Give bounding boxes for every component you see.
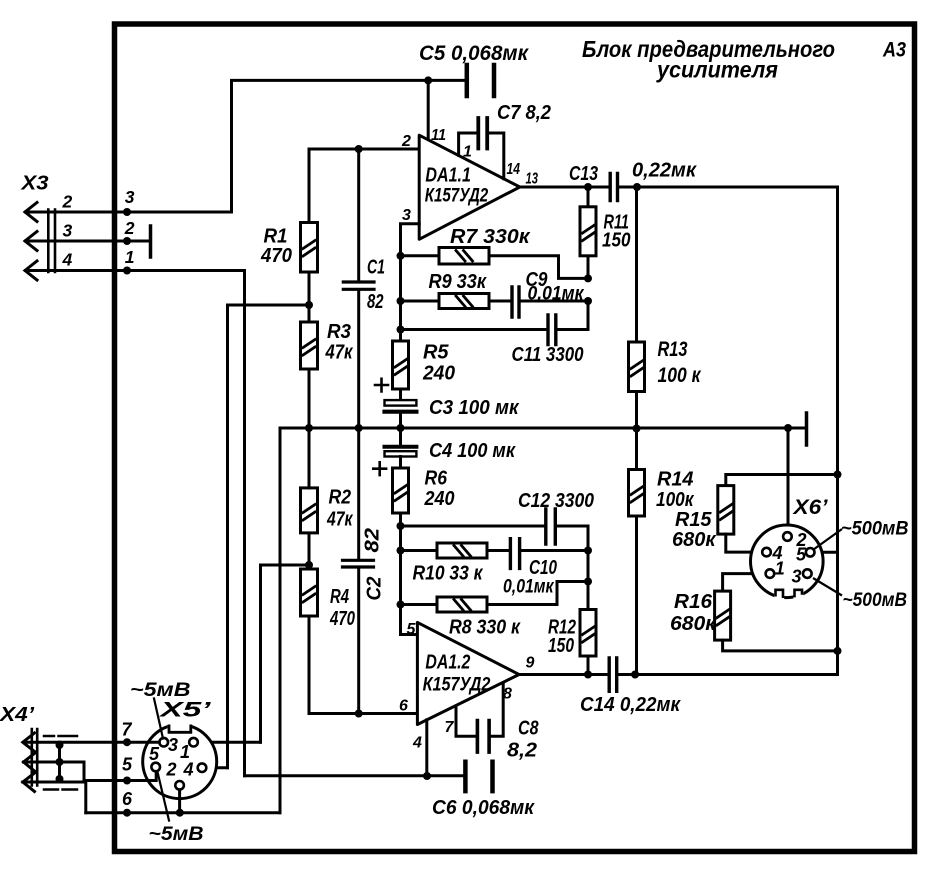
junction dot R2R4	[305, 561, 313, 569]
svg-text:R5: R5	[423, 342, 449, 364]
junction dot X5 bottom pin row	[176, 809, 184, 817]
wire bus corner down to row6	[279, 428, 282, 813]
wire R16 top to X6 pin1	[723, 574, 767, 592]
wire X4 row6 step	[23, 782, 86, 813]
svg-text:R14: R14	[657, 469, 694, 491]
svg-text:100к: 100к	[656, 489, 694, 511]
wire R3 bottom to bus	[308, 369, 311, 428]
resistor R9	[439, 294, 489, 309]
svg-text:470: 470	[260, 245, 292, 267]
wire X5 pin4 row	[205, 766, 228, 769]
junction dots R11 column	[584, 274, 592, 282]
capacitor C9	[512, 287, 519, 317]
svg-text:C14 0,22мк: C14 0,22мк	[580, 694, 681, 716]
wire X5 bottom pin to row6	[178, 790, 181, 813]
wire bus to C4	[399, 428, 402, 445]
wire row6	[86, 811, 280, 814]
svg-text:4: 4	[62, 250, 73, 270]
X5 pin bottom	[175, 781, 184, 790]
resistor R7	[439, 248, 489, 265]
svg-text:0,01мк: 0,01мк	[528, 284, 585, 305]
svg-text:2: 2	[401, 133, 411, 150]
capacitor C8	[477, 721, 489, 753]
junction dot C5 node	[424, 76, 432, 84]
wire R15 to X6 pin4	[726, 534, 763, 552]
connector X3 arrow pin3	[25, 232, 37, 251]
wire C11 row	[401, 301, 589, 330]
wire X6 pin5 to right column	[814, 551, 838, 554]
junction dots right column	[834, 471, 842, 479]
svg-text:C3 100 мк: C3 100 мк	[429, 397, 519, 419]
wire C1 to bus to C2	[357, 291, 360, 559]
svg-text:150: 150	[548, 635, 574, 657]
wire C3 to bus	[399, 414, 402, 428]
junction dots X4 shield tie	[56, 741, 64, 749]
resistor R15	[718, 486, 734, 534]
X5 pin mid-left	[151, 763, 160, 772]
X6 pin 1 lower-left	[766, 569, 775, 578]
wire X3 row1 down left column	[26, 271, 245, 776]
resistor R14	[629, 470, 645, 517]
wire R10 row	[401, 549, 589, 552]
X4 screen dash top	[44, 735, 77, 738]
capacitor C3 plus sign	[375, 379, 388, 392]
svg-text:1: 1	[125, 247, 135, 267]
X5 pin mid-right	[198, 763, 207, 772]
junction dots X4 rows	[123, 738, 131, 746]
svg-text:5: 5	[122, 755, 133, 775]
svg-text:5: 5	[796, 545, 807, 565]
X5 pin top-left	[159, 738, 168, 747]
junction dot pin2 node	[355, 145, 363, 153]
junction dots pin5 column	[397, 522, 405, 530]
wire C4 to R6	[399, 457, 402, 469]
svg-text:К157УД2: К157УД2	[425, 186, 489, 207]
svg-text:150: 150	[602, 230, 631, 252]
wire R5 to C3	[399, 389, 402, 400]
svg-text:0,01мк: 0,01мк	[503, 577, 555, 598]
svg-text:R3: R3	[327, 321, 351, 343]
svg-text:X3: X3	[20, 173, 48, 195]
capacitor C12	[546, 509, 556, 544]
capacitor C2	[343, 560, 374, 567]
wire R16 bottom row	[723, 640, 838, 651]
wire DA1.1 output row	[520, 187, 838, 675]
svg-text:8: 8	[503, 686, 512, 703]
svg-text:2: 2	[62, 192, 73, 212]
svg-text:R9 33к: R9 33к	[429, 271, 487, 293]
svg-text:3: 3	[125, 187, 135, 207]
connector X4 arrow row7	[23, 733, 35, 752]
capacitor C4	[385, 445, 417, 449]
resistor R16	[715, 591, 731, 640]
resistor R12	[580, 610, 596, 657]
wire R1 top to op-amp pin2	[309, 149, 419, 223]
resistor R13	[629, 342, 645, 392]
svg-text:C1: C1	[367, 257, 385, 279]
svg-text:C11 3300: C11 3300	[512, 344, 584, 366]
wire C2 to pin6 row	[357, 569, 360, 714]
svg-text:R8 330 к: R8 330 к	[449, 617, 521, 639]
junction dots X3 rows	[123, 208, 131, 216]
capacitor C3	[385, 400, 417, 406]
svg-text:3: 3	[792, 567, 802, 587]
svg-text:47к: 47к	[325, 342, 354, 364]
common bus wire	[280, 427, 805, 430]
wire C1 column top	[357, 149, 360, 281]
svg-text:~5мВ: ~5мВ	[149, 824, 204, 845]
svg-text:C6 0,068мк: C6 0,068мк	[432, 797, 535, 819]
svg-text:82: 82	[362, 528, 384, 553]
svg-text:R10 33 к: R10 33 к	[413, 563, 484, 585]
svg-text:R15: R15	[675, 509, 712, 531]
svg-text:5: 5	[149, 744, 160, 764]
X6 pin 2 top	[783, 532, 792, 541]
wire R8 row	[401, 582, 589, 605]
resistor R8	[437, 597, 487, 612]
X4 shield tie	[58, 742, 61, 782]
svg-text:240: 240	[424, 488, 455, 510]
svg-text:X5’: X5’	[159, 699, 212, 722]
svg-text:R6: R6	[425, 468, 448, 490]
svg-text:C12 3300: C12 3300	[518, 490, 594, 512]
wire C6 row to pin4 node	[245, 774, 464, 777]
capacitor C8 bracket	[456, 683, 503, 736]
svg-text:C5 0,068мк: C5 0,068мк	[419, 42, 529, 65]
wire R14 to C14 row	[635, 516, 638, 675]
leader X6 pin5	[814, 529, 843, 550]
resistor R10	[437, 543, 487, 558]
svg-text:6: 6	[399, 698, 408, 715]
wire C12 row	[401, 526, 589, 610]
wire R2R4 node to column C	[261, 565, 310, 742]
svg-text:3: 3	[402, 207, 411, 224]
svg-text:C7 8,2: C7 8,2	[497, 102, 551, 124]
svg-text:усилителя: усилителя	[656, 57, 778, 83]
svg-text:2: 2	[166, 760, 177, 780]
svg-text:2: 2	[124, 218, 135, 238]
junction dots output row2	[584, 671, 592, 679]
capacitor C14	[609, 658, 617, 691]
svg-text:5: 5	[407, 621, 417, 638]
svg-text:470: 470	[329, 608, 355, 630]
svg-text:3: 3	[168, 735, 178, 755]
wire R2 to R4 node	[308, 533, 311, 569]
X6 pin 4 left	[762, 548, 771, 557]
junction dots bus	[305, 424, 313, 432]
svg-text:DA1.1: DA1.1	[425, 165, 471, 187]
wire X4 row5 step	[24, 762, 128, 781]
svg-text:47к: 47к	[326, 509, 353, 531]
connector X6 circle	[751, 525, 824, 598]
op-amp DA1.2	[417, 622, 519, 724]
X4 cable screen bars	[32, 729, 37, 786]
svg-text:82: 82	[367, 291, 384, 313]
capacitor C4 plus sign	[373, 462, 386, 475]
wire DA1.2 output row	[519, 673, 838, 676]
connector X4 arrow row5	[24, 753, 36, 772]
svg-text:R16: R16	[674, 591, 713, 613]
wire R11 column	[587, 187, 590, 278]
X5 pin top-right	[189, 738, 198, 747]
wire X3 row3 to C5 net	[26, 80, 465, 212]
wire R12 to output row	[587, 656, 590, 675]
svg-text:1: 1	[463, 144, 472, 161]
svg-text:C8: C8	[518, 718, 539, 740]
X6 pin 5 right	[806, 548, 815, 557]
svg-text:К157УД2: К157УД2	[423, 675, 491, 696]
connector X3 arrow pin4	[25, 261, 37, 280]
resistor R2	[301, 488, 318, 533]
capacitor C10	[510, 539, 519, 569]
wire pin4 down to C6 row	[425, 720, 428, 776]
svg-text:R13: R13	[658, 338, 688, 361]
svg-text:3: 3	[63, 221, 73, 241]
wire R7 row	[401, 256, 589, 279]
svg-text:680к: 680к	[670, 613, 717, 635]
X3 cable screen bars	[48, 210, 55, 273]
connector X5 key notch	[168, 721, 192, 731]
svg-text:7: 7	[445, 719, 455, 736]
junction dots R12 column	[584, 547, 592, 555]
wire R1 to R3	[308, 272, 311, 322]
svg-text:9: 9	[526, 655, 535, 672]
svg-text:R7 330к: R7 330к	[450, 226, 530, 248]
wire bus to R2	[308, 428, 311, 488]
svg-text:14: 14	[507, 161, 521, 178]
svg-text:X4’: X4’	[0, 704, 34, 726]
svg-text:C2: C2	[364, 577, 386, 601]
junction dot R1R3	[305, 301, 313, 309]
resistor R3	[301, 322, 318, 369]
resistor R6	[393, 468, 409, 513]
svg-text:~500мВ: ~500мВ	[843, 590, 908, 611]
pin11 wire from C5 node	[427, 80, 430, 140]
svg-text:~5мВ: ~5мВ	[130, 680, 191, 701]
svg-text:240: 240	[422, 363, 455, 385]
resistor R1	[301, 223, 318, 273]
wire pin6 row	[309, 616, 417, 714]
wire X3 row2 to common	[26, 240, 149, 243]
wire R13 to bus	[635, 392, 638, 429]
svg-text:R2: R2	[329, 487, 352, 509]
svg-text:X6’: X6’	[792, 496, 828, 519]
connector X6 key notches	[774, 592, 784, 601]
junction dots pin3 column	[397, 252, 405, 260]
capacitor C13	[610, 174, 617, 201]
capacitor C5	[467, 65, 494, 96]
svg-text:8,2: 8,2	[507, 740, 537, 762]
resistor R11	[580, 207, 596, 256]
X6 pin 3 lower-right	[803, 569, 812, 578]
svg-text:7: 7	[122, 720, 133, 740]
wire row5 to X5 mid-left pin	[127, 772, 156, 781]
resistor R5	[393, 341, 409, 389]
capacitor C1	[343, 282, 374, 289]
wire R6 down to pin5	[401, 513, 418, 635]
svg-text:R4: R4	[330, 586, 349, 608]
svg-text:C4 100 мк: C4 100 мк	[429, 440, 516, 462]
connector X5 circle	[143, 725, 217, 799]
svg-text:100 к: 100 к	[658, 364, 702, 387]
capacitor C6	[465, 762, 492, 791]
leader to X5 upper pin	[154, 699, 163, 739]
junction dot pin4 C6	[423, 772, 431, 780]
connector X3 arrow pin2	[25, 203, 37, 222]
capacitor C7 bracket	[459, 133, 504, 179]
wire R1R3 node to column A	[228, 305, 310, 768]
resistor R4	[301, 569, 318, 616]
ground bar at bus right end	[805, 413, 809, 445]
X4 screen dash bottom	[44, 788, 77, 791]
svg-text:13: 13	[526, 171, 539, 188]
junction dots output row1	[584, 183, 592, 191]
svg-text:C13: C13	[569, 163, 598, 185]
svg-text:0,22мк: 0,22мк	[632, 160, 697, 182]
capacitor C7	[478, 118, 487, 149]
junction dot pin6	[355, 710, 363, 718]
wire bus to X6 pin2	[787, 428, 790, 533]
svg-text:680к: 680к	[672, 529, 716, 551]
ground bar at X3 row2	[149, 226, 153, 257]
wire R15 top row	[726, 475, 838, 486]
svg-text:4: 4	[183, 760, 194, 780]
svg-text:6: 6	[122, 789, 133, 809]
svg-text:DA1.2: DA1.2	[425, 652, 470, 674]
svg-text:~500мВ: ~500мВ	[841, 519, 909, 540]
wire pin3 stub and feedback column	[401, 224, 420, 341]
wire R9 row	[401, 300, 589, 303]
wire R13 column	[635, 187, 638, 342]
svg-text:4: 4	[412, 735, 422, 752]
svg-text:11: 11	[431, 127, 446, 144]
svg-text:А3: А3	[882, 39, 906, 62]
wire bus to R14	[635, 429, 638, 470]
wire X5 pin1 row	[197, 741, 261, 744]
connector X4 arrow row6	[23, 773, 35, 792]
svg-text:1: 1	[775, 559, 785, 579]
leader from X5 mid-left pin	[158, 772, 170, 821]
leader X6 pin3	[813, 578, 842, 596]
wire X5 row7	[26, 741, 160, 744]
op-amp DA1.1	[419, 135, 520, 239]
capacitor C11	[548, 315, 556, 345]
wire R5 column top	[399, 340, 402, 343]
